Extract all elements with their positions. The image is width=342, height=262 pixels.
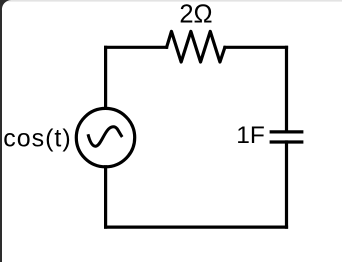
resistor 2Ω: [167, 31, 225, 62]
wire right lower segment: [285, 142, 288, 227]
wire top-right segment: [225, 46, 287, 49]
svg-text:2Ω: 2Ω: [179, 1, 212, 29]
wire right upper segment: [285, 47, 288, 132]
wire top-left segment: [106, 46, 167, 49]
label cos(t): [3, 125, 72, 153]
wire bottom segment: [106, 226, 287, 229]
label 2Ω: [179, 1, 212, 29]
wire left upper segment: [104, 47, 107, 108]
ac voltage source cos(t): [76, 108, 134, 166]
capacitor 1F: [270, 132, 304, 142]
label 1F: [236, 122, 265, 149]
svg-text:cos(t): cos(t): [3, 125, 72, 153]
svg-text:1F: 1F: [236, 122, 265, 149]
wire left lower segment: [104, 167, 107, 227]
